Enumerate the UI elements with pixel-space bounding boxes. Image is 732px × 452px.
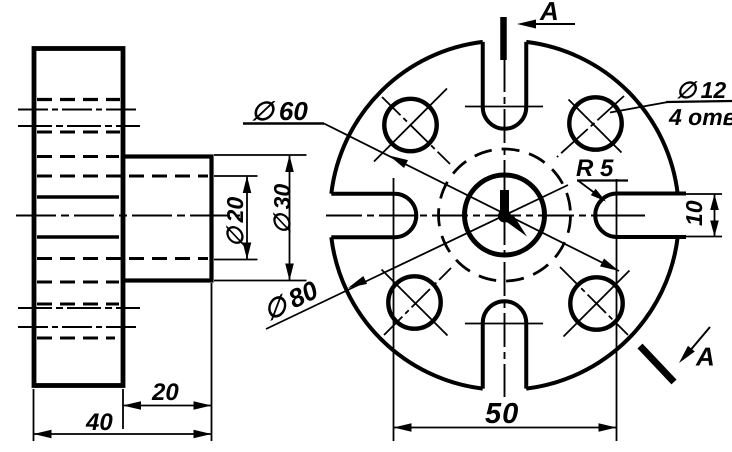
diagonal centerline through lower-left hole	[384, 268, 451, 335]
hidden line: top slot deepest edge	[37, 131, 120, 134]
dimension 20 (hub length)	[123, 379, 212, 410]
extension line: bore top for dim D20	[214, 175, 258, 177]
svg-text:20: 20	[151, 379, 179, 406]
extension line: disc right edge for dim 20	[122, 389, 124, 429]
visible line: side slots lower edge	[37, 235, 119, 238]
dimension D60 (bolt circle) leader and text	[243, 96, 619, 271]
dimension D30 (hub)	[269, 155, 295, 281]
hidden line: top holes lower edge	[37, 155, 119, 158]
left slot	[331, 194, 416, 238]
bottom slot	[483, 301, 527, 388]
cross tick on lower-right hole	[564, 271, 630, 337]
svg-text:50: 50	[485, 398, 519, 430]
extension line: disc left edge for dim 40	[33, 389, 35, 441]
center blob in bore	[498, 210, 511, 223]
top slot	[483, 42, 527, 129]
centerline: bottom slot axis	[18, 326, 140, 328]
hidden line: bore upper edge	[37, 175, 208, 178]
cross tick on lower-left hole	[382, 270, 448, 336]
pointer wedge in bore	[506, 215, 527, 237]
dimension 10 (slot width)	[681, 194, 719, 237]
diagonal centerline through lower-right hole	[560, 267, 628, 335]
svg-text:∅ 20: ∅ 20	[222, 197, 248, 247]
extension line: hub bottom for dim D30	[214, 280, 307, 282]
hidden line: top holes upper edge	[37, 98, 120, 101]
horizontal centerline	[326, 215, 645, 217]
dimension D20 (bore)	[222, 176, 251, 260]
svg-text:∅ 60: ∅ 60	[251, 96, 308, 126]
section plane mark A (top)	[504, 0, 576, 60]
extension lines for dim 10 (slot width)	[682, 193, 722, 195]
svg-text:40: 40	[85, 409, 113, 436]
hub outline	[123, 157, 212, 281]
keyway bar in bore	[500, 190, 509, 214]
extension line: hub right edge for dims 20/40	[211, 283, 213, 441]
cross tick on upper-left hole	[374, 89, 447, 162]
hidden line: bottom slot deepest edge	[37, 303, 119, 306]
cross tick on upper-right hole	[569, 100, 622, 153]
leader R5 (slot end radius)	[576, 155, 628, 202]
hole upper-left	[384, 99, 436, 151]
svg-text:A: A	[539, 0, 559, 26]
right slot	[595, 194, 686, 238]
vertical centerline	[504, 58, 506, 397]
hidden hub circle (dashed)	[439, 149, 571, 281]
centerline: bottom holes axis	[18, 307, 140, 309]
diagonal centerline through upper-right hole	[557, 96, 624, 157]
svg-text:R 5: R 5	[576, 155, 614, 182]
svg-text:∅ 12: ∅ 12	[676, 77, 726, 103]
centerline: top slot axis	[18, 109, 140, 111]
dimension 50 (slot centers distance)	[394, 398, 617, 432]
dimension 40 (total length)	[34, 409, 212, 438]
disc outline	[34, 49, 123, 386]
visible line: side slots upper edge	[37, 195, 119, 198]
extension line left for dim 50	[393, 178, 395, 441]
outer circle with four slot openings	[331, 42, 677, 389]
centerline tick across bottom slot end	[465, 323, 543, 325]
hole lower-right	[570, 277, 622, 329]
svg-text:A: A	[695, 342, 715, 372]
svg-text:∅ 30: ∅ 30	[269, 184, 295, 234]
hidden line: bottom holes lower edge	[37, 337, 115, 340]
center bore circle	[465, 175, 545, 255]
hole upper-right	[569, 97, 621, 149]
section plane mark A (bottom right)	[640, 327, 715, 382]
svg-text:4 отв.: 4 отв.	[668, 104, 732, 130]
svg-text:10: 10	[681, 200, 707, 226]
extension line: bore bottom for dim D20	[214, 259, 258, 261]
hole lower-left	[388, 276, 440, 328]
centerline dash inside right slot	[627, 215, 644, 217]
centerline tick across top slot end	[465, 106, 543, 108]
centerline: top holes axis	[18, 125, 140, 127]
hidden line: bottom holes upper edge	[37, 281, 119, 284]
diagonal centerline through upper-left hole	[382, 97, 450, 164]
leader D12, 4 holes	[610, 77, 732, 130]
dimension D80 (outer diameter) leader and text	[258, 185, 568, 329]
hidden line: bore lower edge	[37, 257, 208, 260]
extension line: hub top for dim D30	[214, 154, 307, 156]
centerline: main horizontal axis	[16, 215, 240, 217]
extension line right for dim 50	[616, 179, 618, 441]
